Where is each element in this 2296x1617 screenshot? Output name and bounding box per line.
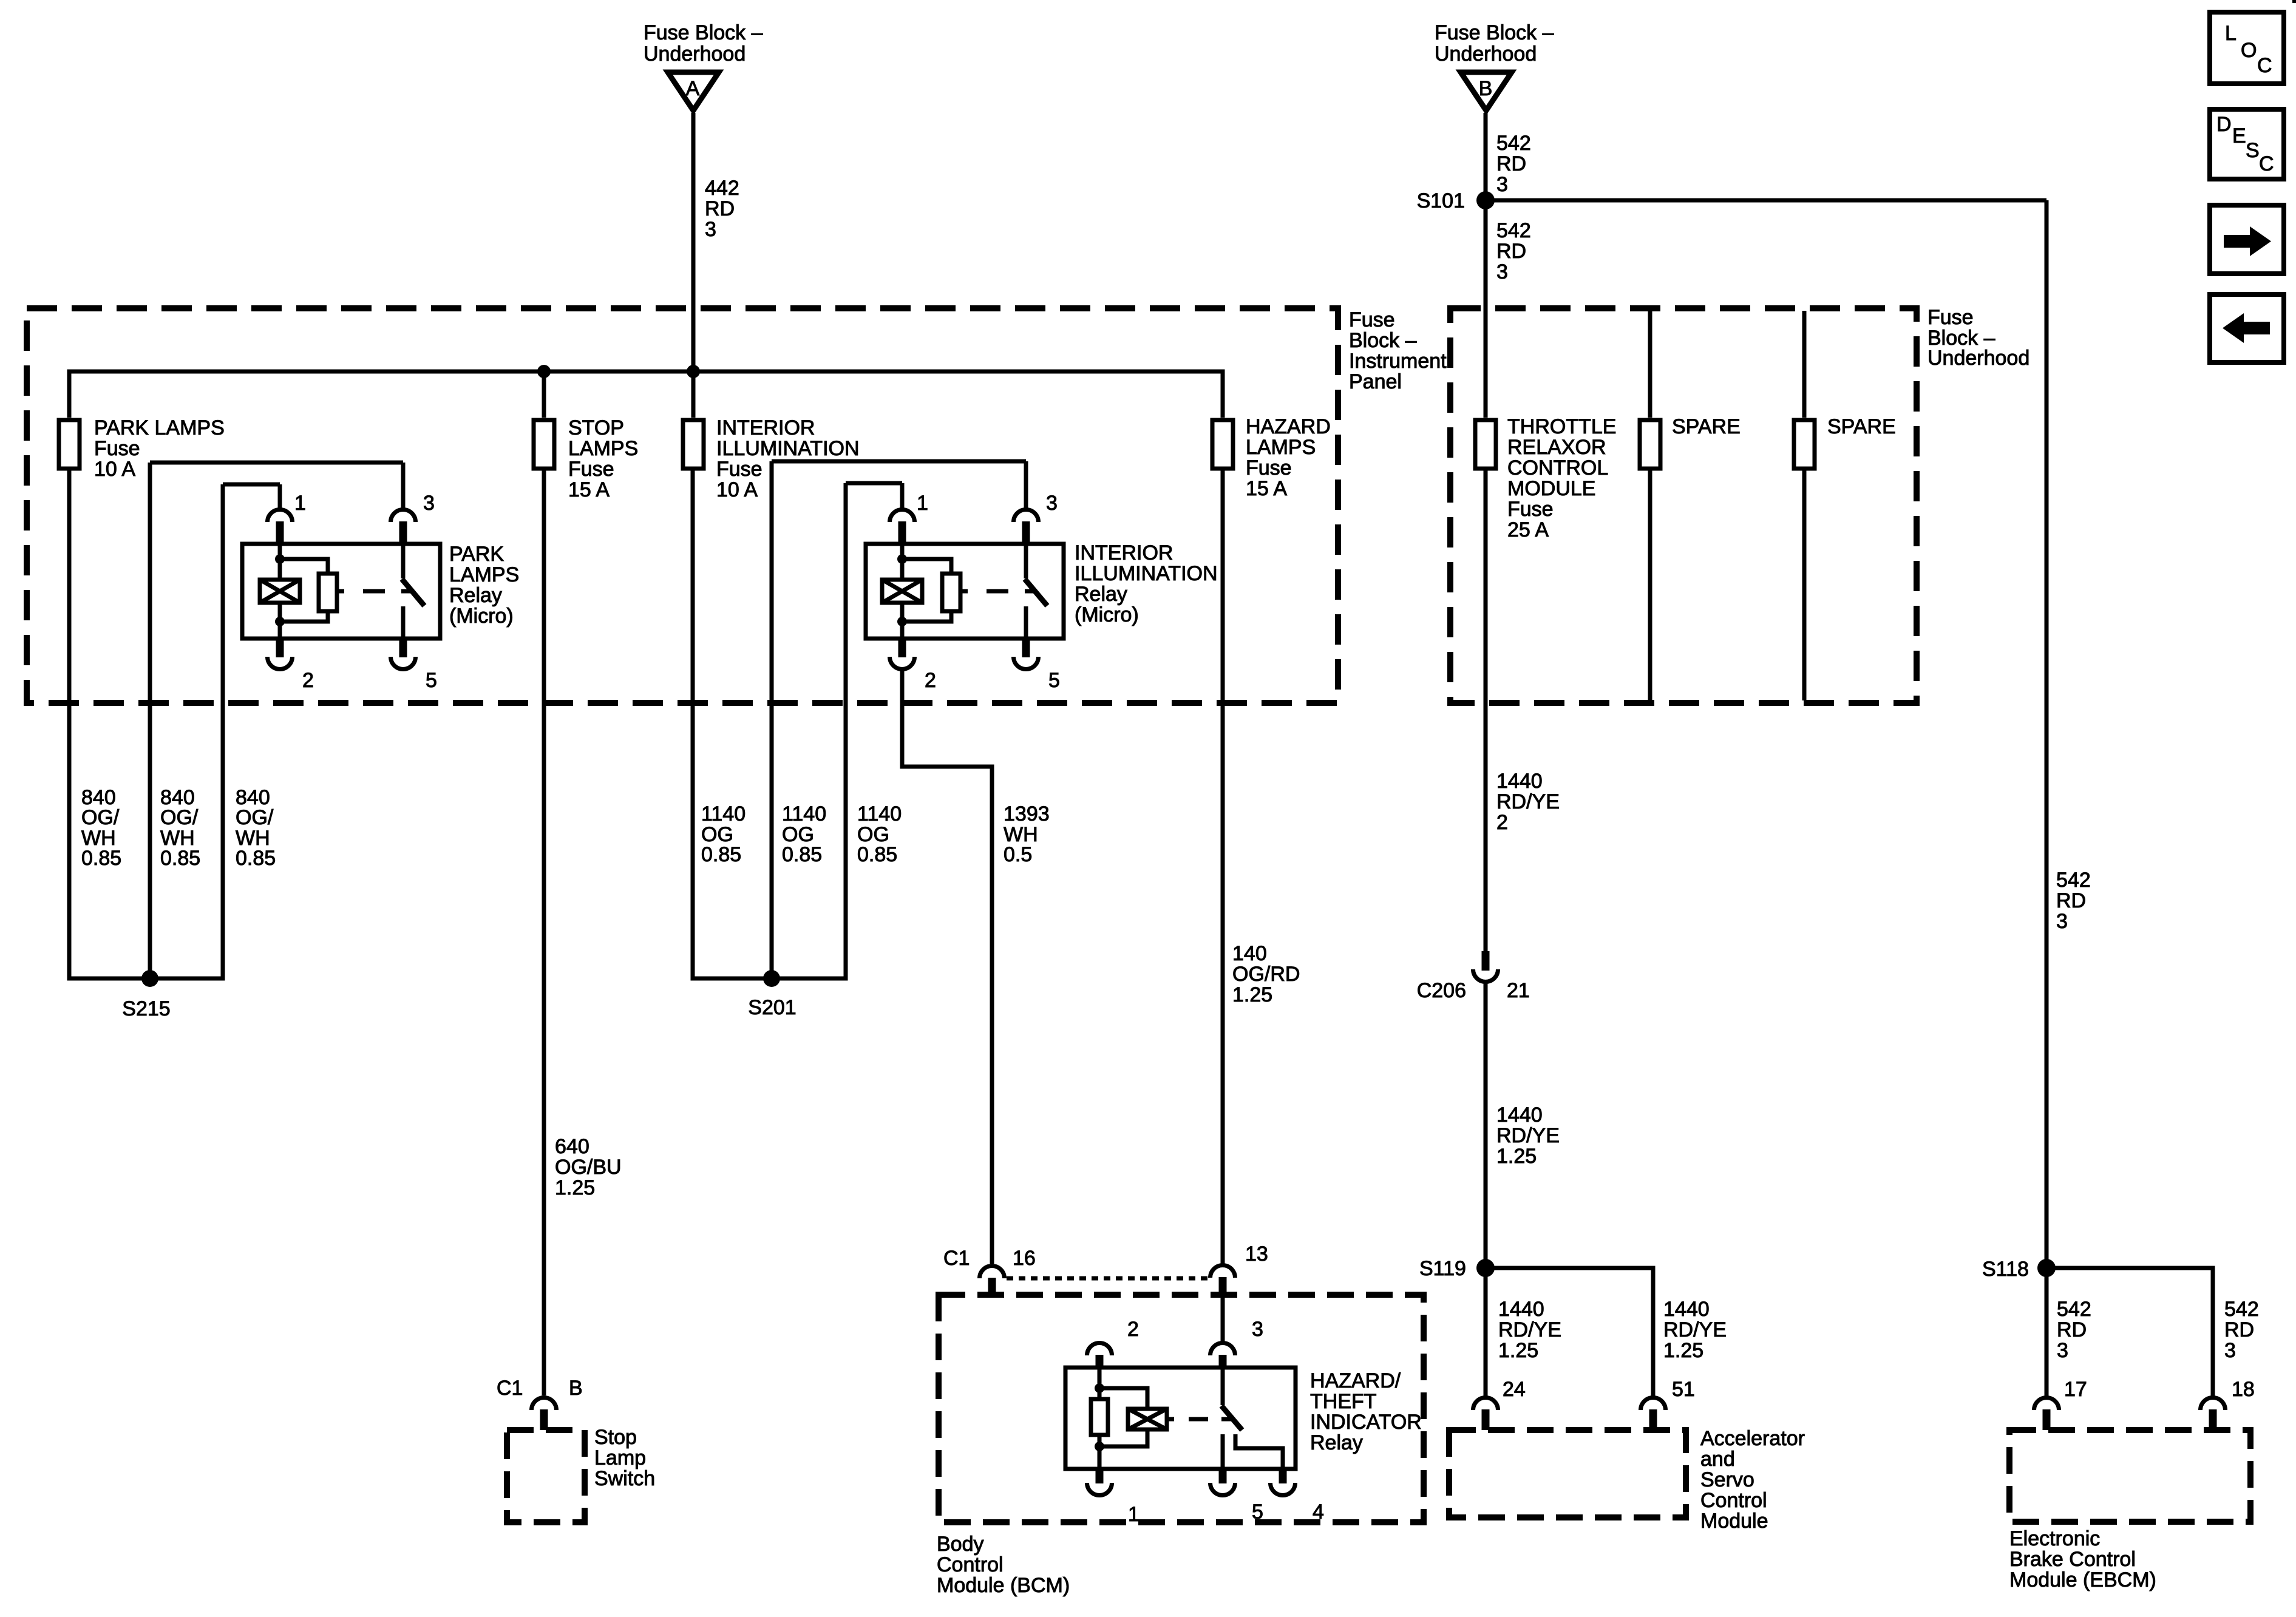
label: Fuse Block - Underhood (right) [1927,306,2029,370]
svg-text:Fuse: Fuse [1927,306,1974,329]
node: bus junction at interior illumination fuse [687,365,700,378]
svg-text:LAMPS: LAMPS [568,437,638,460]
connector C1-B at stop lamp switch [497,1377,583,1430]
wire: 1393 WH from interior relay pin 2 to BCM C1-16 [902,670,992,1264]
svg-text:Underhood: Underhood [1927,347,2029,370]
wire stub bus to interior illumination fuse [691,371,696,418]
svg-text:(Micro): (Micro) [449,605,514,628]
dashed box: Fuse Block - Underhood (right) [1450,308,1917,703]
svg-text:HAZARD/: HAZARD/ [1310,1369,1401,1392]
svg-text:0.5: 0.5 [1004,843,1032,866]
svg-text:RD: RD [2056,889,2086,912]
node: bus junction at stop lamps fuse [537,365,551,378]
svg-text:0.85: 0.85 [857,843,897,866]
wire label 1440 RD/YE 2 [1496,770,1560,834]
wire label 1140 OG 0.85 (second) [782,802,826,866]
svg-text:Stop: Stop [594,1426,637,1449]
svg-text:18: 18 [2232,1378,2255,1401]
svg-text:Panel: Panel [1349,370,1402,393]
svg-text:1440: 1440 [1496,1103,1543,1127]
svg-text:Body: Body [937,1533,984,1556]
wire: park relay pin3 leg to S215 [148,463,152,978]
svg-text:OG/: OG/ [81,806,120,829]
wire: S101 to right side vertical [1486,198,2046,203]
svg-text:13: 13 [1245,1242,1268,1266]
svg-text:Fuse: Fuse [94,437,140,460]
svg-text:B: B [1479,77,1493,100]
svg-text:PARK: PARK [449,543,504,566]
svg-text:5: 5 [426,669,437,692]
wire stub to stop lamps fuse [542,371,546,418]
svg-text:4: 4 [1313,1500,1324,1524]
wire: S118 branch to pin 18 [2046,1268,2213,1396]
connector pin 24 [1473,1378,1526,1430]
svg-text:542: 542 [1496,219,1531,242]
svg-text:1140: 1140 [857,802,902,825]
splice S215 [122,970,170,1020]
svg-text:Relay: Relay [1310,1431,1363,1454]
wire label 542 RD 3 (right vertical) [2056,869,2091,933]
wire: 442 RD from triangle A to interior illumination fuse [691,113,696,418]
svg-text:Control: Control [1700,1489,1767,1512]
wire label 840 OG/WH 0.85 (second) [160,786,200,870]
svg-text:INTERIOR: INTERIOR [1075,541,1173,564]
wire: S119 to pin 24 [1484,1268,1488,1396]
svg-text:1: 1 [294,492,306,515]
svg-text:HAZARD: HAZARD [1246,415,1331,438]
svg-text:C1: C1 [943,1247,970,1270]
svg-text:1: 1 [917,492,928,515]
svg-text:1393: 1393 [1004,802,1050,825]
wire: park lamps fuse down to S215 [69,469,146,978]
svg-text:Fuse Block –: Fuse Block – [644,21,763,44]
fuse PARK LAMPS 10A [59,416,225,481]
svg-text:Module: Module [1700,1510,1768,1533]
label: INTERIOR ILLUMINATION Relay (Micro) [1075,541,1218,626]
svg-text:LAMPS: LAMPS [449,563,519,586]
power triangle A [668,72,719,110]
connector C1 pin 13 at BCM [1211,1242,1268,1296]
wire: S119 branch to pin 51 [1486,1268,1653,1396]
svg-text:SPARE: SPARE [1827,415,1896,438]
svg-text:Servo: Servo [1700,1468,1754,1491]
svg-text:A: A [686,77,700,100]
splice S118 [1982,1258,2056,1281]
inline connector C206 pin 21 [1417,951,1530,1002]
svg-text:3: 3 [2056,910,2068,933]
svg-text:RD: RD [1496,152,1526,175]
svg-text:CONTROL: CONTROL [1507,456,1608,480]
wire label 140 OG/RD 1.25 [1232,942,1300,1006]
svg-text:Instrument: Instrument [1349,350,1447,373]
svg-text:C1: C1 [497,1377,523,1400]
wire label 542 RD 3 (above S101) [1496,132,1531,196]
svg-text:(Micro): (Micro) [1075,603,1139,626]
svg-text:INTERIOR: INTERIOR [716,416,815,439]
svg-text:OG/: OG/ [236,806,274,829]
svg-text:25 A: 25 A [1507,518,1549,541]
svg-text:RD: RD [2057,1318,2087,1341]
wire: 640 OG/BU stop lamps fuse to stop lamp switch [542,469,546,1395]
wire label 840 OG/WH 0.85 (third) [236,786,276,870]
svg-text:Switch: Switch [594,1467,655,1490]
wire label 1440 RD/YE 1.25 (above S119) [1496,1103,1560,1168]
svg-text:S119: S119 [1419,1257,1466,1280]
svg-text:442: 442 [705,177,739,200]
wire label 542 RD 3 (pin 17 leg) [2057,1298,2091,1362]
component: Electronic Brake Control Module (EBCM) [2009,1430,2250,1592]
svg-text:B: B [569,1377,583,1400]
label: PARK LAMPS Relay (Micro) [449,543,519,628]
svg-text:15 A: 15 A [1246,477,1287,500]
svg-text:OG/RD: OG/RD [1232,963,1300,986]
relay: HAZARD/THEFT INDICATOR Relay [1065,1318,1324,1526]
svg-text:and: and [1700,1448,1735,1471]
svg-text:1.25: 1.25 [1232,983,1272,1006]
power triangle B [1461,72,1512,110]
svg-text:51: 51 [1672,1378,1695,1401]
wire label 542 RD 3 (pin 18 leg) [2224,1298,2259,1362]
svg-text:Fuse: Fuse [1507,498,1554,521]
svg-text:LAMPS: LAMPS [1246,436,1316,459]
wire label 1140 OG 0.85 (third) [857,802,902,866]
wire: 140 OG/RD hazard fuse to BCM pin 13 [1221,469,1225,1264]
dotted line connector C1 inside BCM [1007,1276,1209,1281]
svg-text:Underhood: Underhood [644,42,746,66]
svg-text:Control: Control [937,1553,1004,1576]
wire label 1440 RD/YE 1.25 (pin 24 leg) [1498,1298,1561,1362]
svg-text:5: 5 [1048,669,1060,692]
label: Fuse Block - Underhood (B) [1435,21,1554,66]
svg-text:PARK LAMPS: PARK LAMPS [94,416,225,439]
svg-text:3: 3 [2224,1339,2236,1362]
svg-text:RD/YE: RD/YE [1498,1318,1561,1341]
svg-text:Fuse: Fuse [1349,308,1395,331]
left arrow box [2210,294,2284,362]
connector pin 17 [2034,1378,2087,1430]
svg-text:1140: 1140 [701,802,746,825]
wire: C206 to S119 [1484,981,1488,1268]
svg-text:1.25: 1.25 [555,1176,595,1199]
svg-text:15 A: 15 A [568,478,610,501]
svg-text:O: O [2241,39,2257,62]
component: Stop Lamp Switch [507,1426,655,1522]
svg-text:SPARE: SPARE [1672,415,1741,438]
svg-text:0.85: 0.85 [701,843,741,866]
label: HAZARD/THEFT INDICATOR Relay [1310,1369,1422,1454]
label: Fuse Block - Underhood (A) [644,21,763,66]
svg-text:OG/: OG/ [160,806,199,829]
svg-text:3: 3 [1496,173,1508,196]
svg-text:Accelerator: Accelerator [1700,1427,1805,1450]
wire: horizontal to interior relay pin 3 [772,459,1026,464]
svg-text:1140: 1140 [782,802,826,825]
fuse STOP LAMPS 15A [534,416,638,501]
svg-text:3: 3 [1496,260,1508,283]
svg-text:RD/YE: RD/YE [1663,1318,1727,1341]
wire label 640 OG/BU 1.25 [555,1135,622,1199]
svg-text:ILLUMINATION: ILLUMINATION [716,437,860,460]
wire label 1140 OG 0.85 (first) [701,802,746,866]
svg-text:Block –: Block – [1349,329,1417,352]
wire: interior fuse down to S201 [693,469,768,978]
wire label 840 OG/WH 0.85 (first) [81,786,121,870]
svg-text:1.25: 1.25 [1663,1339,1703,1362]
svg-text:Fuse: Fuse [1246,456,1292,480]
svg-text:10 A: 10 A [94,458,135,481]
svg-text:S101: S101 [1417,189,1465,212]
svg-text:THEFT: THEFT [1310,1390,1377,1413]
wire: park relay pin1 drop [278,484,282,509]
svg-text:1440: 1440 [1663,1298,1710,1321]
svg-text:Relay: Relay [449,584,502,607]
svg-text:INDICATOR: INDICATOR [1310,1411,1422,1434]
svg-text:3: 3 [423,492,435,515]
fuse THROTTLE RELAXOR CONTROL MODULE 25A [1475,415,1616,541]
splice S101 [1417,189,1495,212]
wire spare fuse 2 upper [1802,311,1807,418]
svg-text:140: 140 [1232,942,1267,965]
wire: right side 542 RD down to S118 [2045,200,2049,1268]
svg-text:THROTTLE: THROTTLE [1507,415,1616,438]
svg-text:640: 640 [555,1135,589,1158]
svg-text:RD: RD [705,197,735,220]
svg-text:24: 24 [1503,1378,1526,1401]
svg-text:1: 1 [1128,1503,1140,1526]
wire: interior relay pin3 leg to S201 [770,461,774,978]
wire: horizontal to park relay pin 1 [223,483,280,487]
LOC reference box [2210,12,2284,84]
svg-text:S118: S118 [1982,1258,2029,1281]
svg-text:16: 16 [1013,1247,1036,1270]
svg-text:1.25: 1.25 [1498,1339,1538,1362]
svg-text:ILLUMINATION: ILLUMINATION [1075,562,1218,585]
connector C1 pin 16 at BCM [943,1247,1036,1296]
wire: 1440 RD/YE throttle fuse down to C206 [1484,469,1488,952]
svg-text:STOP: STOP [568,416,624,439]
svg-text:3: 3 [2057,1339,2068,1362]
svg-text:S: S [2246,139,2260,162]
wire label 1440 RD/YE 1.25 (pin 51 leg) [1663,1298,1727,1362]
fuse SPARE 1 [1640,415,1741,469]
wire: interior relay pin3 drop [1024,461,1028,509]
svg-text:17: 17 [2064,1378,2087,1401]
svg-text:0.85: 0.85 [782,843,822,866]
wire: pin 13 to hazard relay pin 3 [1221,1295,1225,1341]
svg-text:1440: 1440 [1496,770,1543,793]
svg-text:0.85: 0.85 [160,847,200,870]
svg-text:Fuse: Fuse [716,458,763,481]
svg-text:2: 2 [925,669,936,692]
right arrow box [2210,205,2284,274]
wire: interior relay pin1 leg to S201 [775,483,846,978]
wire: interior relay pin1 drop [900,483,905,509]
svg-text:RELAXOR: RELAXOR [1507,436,1606,459]
wire spare fuse 1 upper [1648,311,1652,418]
svg-text:Underhood: Underhood [1435,42,1537,66]
svg-text:E: E [2232,124,2246,147]
svg-text:2: 2 [1496,811,1508,834]
fuse HAZARD LAMPS 15A [1212,415,1331,500]
svg-text:21: 21 [1507,979,1530,1002]
wire label 542 RD 3 (below S101) [1496,219,1531,283]
svg-text:RD/YE: RD/YE [1496,1124,1560,1147]
svg-text:2: 2 [302,669,314,692]
svg-text:1.25: 1.25 [1496,1145,1537,1168]
svg-text:10 A: 10 A [716,478,758,501]
wire: S118 to pin 17 [2045,1268,2049,1396]
svg-text:Module (EBCM): Module (EBCM) [2009,1568,2156,1592]
wire label 1393 WH 0.5 [1004,802,1050,866]
connector pin 18 [2201,1378,2255,1430]
svg-text:Module (BCM): Module (BCM) [937,1574,1070,1597]
label: Fuse Block - Instrument Panel [1349,308,1447,393]
wire: feed bus inside instrument panel fuse block [69,371,1223,418]
component: Accelerator and Servo Control Module [1449,1427,1805,1533]
svg-text:S201: S201 [748,996,796,1019]
dashed box: Body Control Module (BCM) [939,1295,1424,1522]
wire spare fuse 1 lower [1648,469,1652,700]
svg-text:C: C [2259,152,2274,175]
wire: horizontal to interior relay pin 1 [846,481,902,486]
svg-text:Brake Control: Brake Control [2009,1548,2136,1571]
svg-text:3: 3 [1046,492,1058,515]
splice S119 [1419,1257,1495,1280]
svg-text:542: 542 [2224,1298,2259,1321]
wire spare fuse 2 lower [1802,469,1807,700]
dashed box: Fuse Block - Instrument Panel [27,308,1338,703]
svg-text:RD/YE: RD/YE [1496,790,1560,813]
splice S201 [748,970,796,1019]
svg-text:542: 542 [2057,1298,2091,1321]
svg-text:D: D [2216,113,2232,136]
svg-text:MODULE: MODULE [1507,477,1595,500]
svg-text:Lamp: Lamp [594,1446,646,1470]
svg-text:3: 3 [705,218,716,241]
svg-text:542: 542 [2056,869,2091,892]
svg-text:C: C [2257,54,2272,77]
wire: horizontal to park relay pin 3 [150,461,403,465]
svg-text:3: 3 [1252,1318,1263,1341]
wire: 542 RD from triangle B to throttle relaxor fuse [1484,113,1488,418]
wire: park relay pin1 leg to S215 [154,484,223,978]
svg-text:C206: C206 [1417,979,1466,1002]
svg-text:2: 2 [1127,1318,1139,1341]
svg-text:Fuse: Fuse [568,458,614,481]
corner mark [2292,0,2296,3]
svg-text:542: 542 [1496,132,1531,155]
relay: PARK LAMPS Relay (Micro) [242,492,440,692]
wire: park relay pin3 drop [401,463,406,509]
svg-text:Electronic: Electronic [2009,1527,2100,1550]
svg-text:Fuse Block –: Fuse Block – [1435,21,1554,44]
svg-text:L: L [2225,22,2237,45]
svg-text:RD: RD [1496,240,1526,263]
svg-text:RD: RD [2224,1318,2254,1341]
svg-text:0.85: 0.85 [81,847,121,870]
wire label 442 RD 3 [705,177,739,241]
connector pin 51 [1641,1378,1695,1430]
svg-text:5: 5 [1252,1500,1263,1524]
label: Body Control Module (BCM) [937,1533,1070,1597]
fuse SPARE 2 [1794,415,1896,469]
DESC reference box [2210,109,2284,179]
svg-text:S215: S215 [122,997,170,1020]
svg-text:OG/BU: OG/BU [555,1156,622,1179]
relay: INTERIOR ILLUMINATION Relay (Micro) [866,492,1064,692]
svg-text:1440: 1440 [1498,1298,1544,1321]
svg-text:Relay: Relay [1075,583,1127,606]
svg-text:0.85: 0.85 [236,847,276,870]
fuse INTERIOR ILLUMINATION 10A [683,416,860,501]
